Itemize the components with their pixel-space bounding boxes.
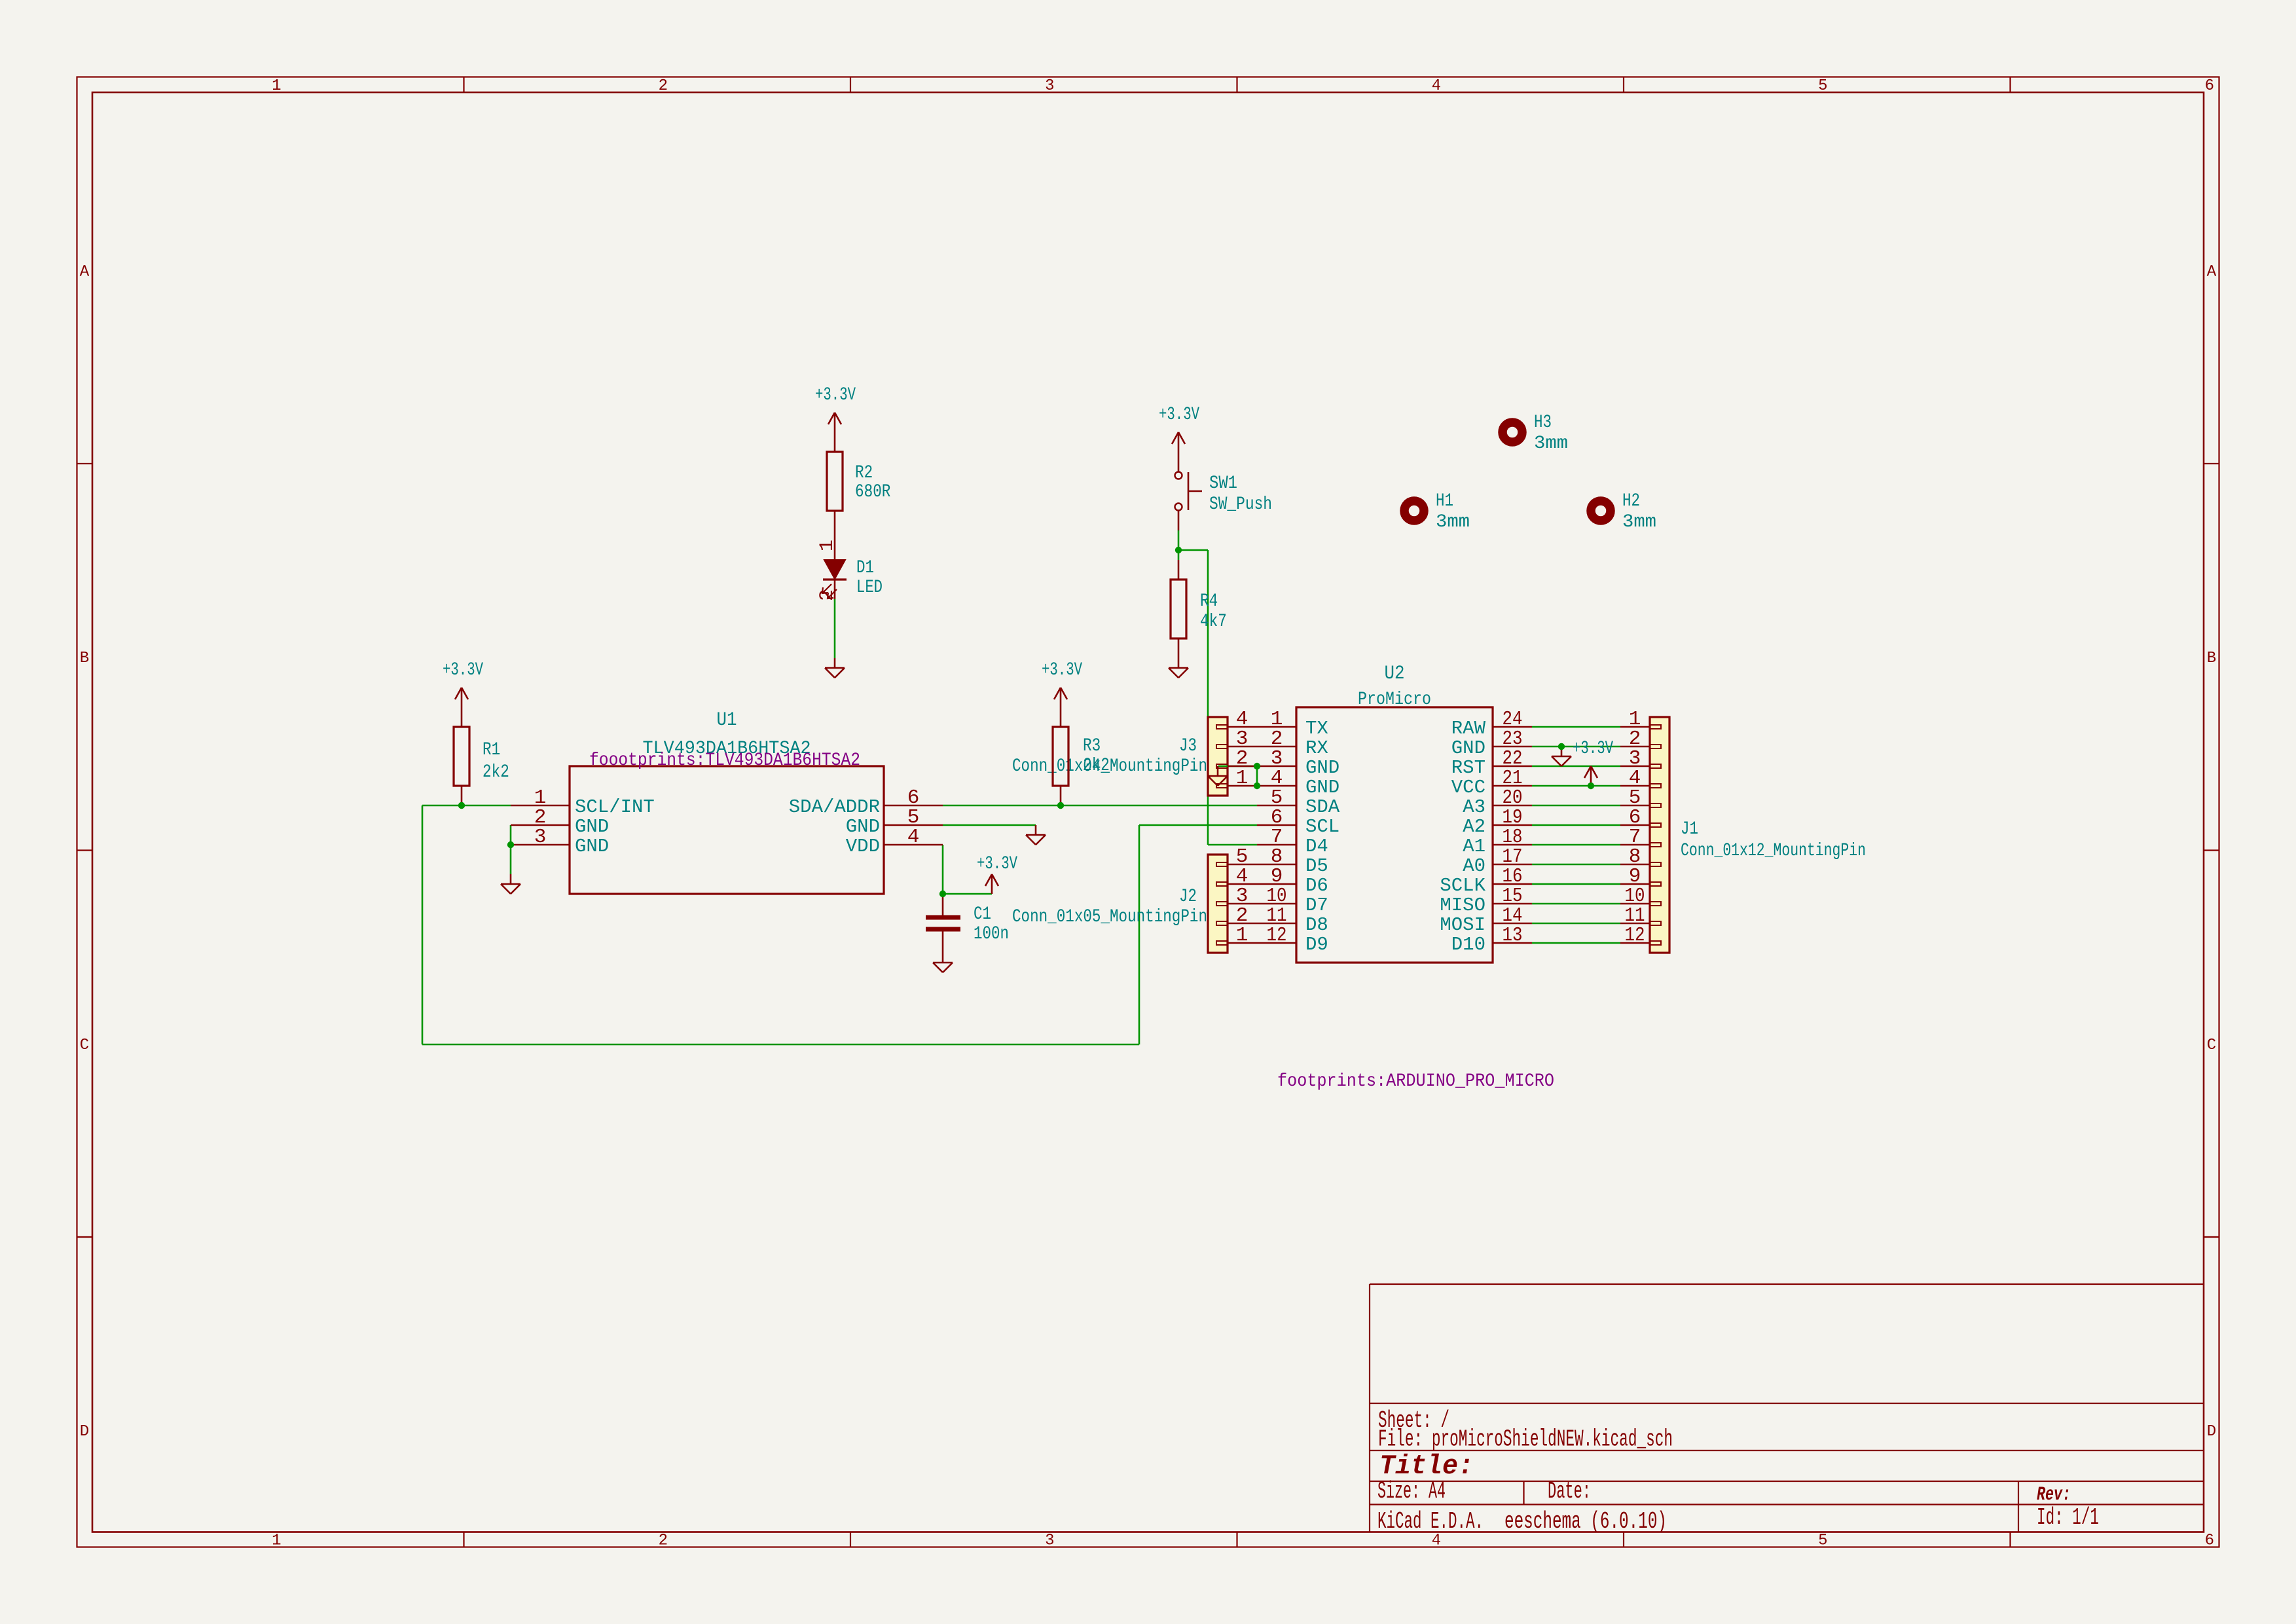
svg-text:SCL/INT: SCL/INT: [575, 796, 655, 818]
connector J2 Conn_01x05_MountingPin: [1012, 855, 1257, 953]
svg-text:5: 5: [1818, 77, 1827, 95]
svg-text:C: C: [80, 1037, 89, 1054]
svg-text:Date:: Date:: [1548, 1478, 1591, 1505]
svg-text:H2: H2: [1622, 491, 1640, 511]
svg-text:D9: D9: [1305, 934, 1328, 955]
svg-text:A: A: [80, 263, 90, 281]
power +3.3V at U2 VCC: [1573, 739, 1613, 786]
svg-text:GND: GND: [575, 836, 609, 857]
svg-text:Id: 1/1: Id: 1/1: [2037, 1504, 2099, 1531]
wire J3 ground stub visible over body: [1218, 766, 1228, 767]
svg-text:SW1: SW1: [1209, 473, 1237, 494]
svg-text:Rev:: Rev:: [2037, 1484, 2071, 1506]
svg-text:SDA/ADDR: SDA/ADDR: [789, 796, 880, 818]
svg-text:C: C: [2207, 1037, 2216, 1054]
svg-text:A2: A2: [1463, 816, 1485, 838]
svg-text:Conn_01x04_MountingPin: Conn_01x04_MountingPin: [1012, 756, 1207, 777]
junction R3/SDA: [1057, 802, 1064, 809]
svg-text:GND: GND: [1305, 777, 1339, 798]
switch SW1 SW_Push: [1175, 452, 1273, 530]
svg-text:VDD: VDD: [846, 836, 880, 857]
svg-text:R2: R2: [855, 463, 873, 483]
svg-text:Conn_01x05_MountingPin: Conn_01x05_MountingPin: [1012, 907, 1207, 927]
junction J3 pin2: [1254, 763, 1260, 769]
wire SW1 junction right: [1178, 549, 1208, 551]
svg-text:680R: 680R: [855, 482, 891, 502]
wire U2 right row 2 to J1: [1532, 746, 1620, 748]
svg-text:LED: LED: [856, 578, 883, 598]
svg-text:2k2: 2k2: [1083, 756, 1110, 776]
svg-text:RX: RX: [1305, 737, 1328, 759]
title block: [1370, 1284, 2204, 1535]
wire U2 right row 1 to J1: [1532, 726, 1620, 728]
svg-text:3: 3: [1045, 1532, 1054, 1550]
mounting hole H3 3mm: [1503, 413, 1568, 454]
svg-text:MOSI: MOSI: [1440, 914, 1485, 936]
wire J3 pin2 to pin1 link: [1256, 766, 1258, 786]
svg-text:SCLK: SCLK: [1440, 875, 1485, 896]
capacitor C1 100n: [926, 894, 1009, 953]
wire J3 ground stub: [1218, 766, 1257, 767]
ground at J3: [1208, 766, 1228, 786]
svg-text:1: 1: [272, 1532, 281, 1550]
svg-text:3: 3: [534, 826, 547, 849]
ground below R4: [1169, 658, 1188, 678]
svg-text:D6: D6: [1305, 875, 1328, 896]
svg-text:MISO: MISO: [1440, 895, 1485, 916]
svg-text:6: 6: [2205, 1532, 2214, 1550]
svg-text:13: 13: [1503, 924, 1523, 947]
wire SCL to U2.SCL: [1139, 824, 1257, 826]
LED D1: [816, 530, 883, 601]
wire SCL net vertical right: [1139, 825, 1140, 1044]
svg-text:ProMicro: ProMicro: [1358, 690, 1431, 710]
resistor R2 680R: [827, 432, 891, 530]
svg-text:Title:: Title:: [1379, 1450, 1474, 1482]
power +3.3V at R3: [1042, 660, 1082, 707]
svg-text:J3: J3: [1179, 736, 1197, 756]
svg-text:GND: GND: [1305, 757, 1339, 779]
IC U1 TLV493DA1B6HTSA2: [511, 709, 943, 894]
svg-text:3mm: 3mm: [1622, 512, 1656, 532]
svg-text:1: 1: [1236, 924, 1248, 947]
wire U2 right row 9 to J1: [1532, 883, 1620, 885]
svg-text:RAW: RAW: [1451, 718, 1486, 739]
junction R1/SCL: [458, 802, 465, 809]
wire SCL net vertical left: [422, 805, 424, 1044]
svg-text:2: 2: [659, 1532, 668, 1550]
power +3.3V at C1: [977, 854, 1017, 894]
mounting hole H1 3mm: [1404, 491, 1470, 532]
wire VDD junction to +3.3V: [943, 893, 992, 895]
wire U2 right row 8 to J1: [1532, 864, 1620, 866]
svg-text:12: 12: [1267, 924, 1287, 947]
svg-text:+3.3V: +3.3V: [977, 854, 1017, 874]
IC U2 ProMicro: [1257, 663, 1532, 963]
svg-text:3mm: 3mm: [1534, 434, 1568, 454]
svg-text:A1: A1: [1463, 836, 1485, 857]
junction SW1/R4: [1175, 547, 1182, 553]
svg-text:File: proMicroShieldNEW.kicad_: File: proMicroShieldNEW.kicad_sch: [1378, 1426, 1673, 1453]
svg-text:D7: D7: [1305, 895, 1328, 916]
svg-text:GND: GND: [575, 816, 609, 838]
svg-text:J1: J1: [1681, 819, 1698, 840]
svg-text:4: 4: [907, 826, 920, 849]
wire U2 right row 6 to J1: [1532, 824, 1620, 826]
svg-text:1: 1: [816, 540, 839, 551]
ground below D1: [825, 658, 845, 678]
connector J3 Conn_01x04_MountingPin: [1012, 717, 1257, 796]
wire D4 net vertical: [1207, 550, 1209, 845]
wire U1 GND pins to ground: [510, 825, 512, 874]
junction U2 VCC right: [1588, 783, 1594, 789]
svg-text:A3: A3: [1463, 796, 1485, 818]
power +3.3V at R2: [815, 385, 856, 432]
svg-text:U2: U2: [1385, 663, 1405, 685]
wire SW1 to R4: [1178, 530, 1180, 560]
svg-text:R4: R4: [1200, 591, 1218, 612]
svg-text:R1: R1: [483, 740, 500, 760]
svg-text:Conn_01x12_MountingPin: Conn_01x12_MountingPin: [1681, 841, 1866, 861]
ground below C1: [933, 953, 953, 972]
wire U2 right row 11 to J1: [1532, 923, 1620, 925]
svg-text:100n: 100n: [974, 924, 1009, 944]
svg-text:1: 1: [1236, 767, 1248, 790]
ground at U2 GND right: [1552, 747, 1571, 766]
resistor R4 4k7: [1171, 560, 1227, 658]
wire U2 right row 3 to J1: [1532, 766, 1620, 767]
svg-text:B: B: [80, 650, 89, 667]
svg-text:H1: H1: [1436, 491, 1453, 511]
svg-text:foootprints:TLV493DA1B6HTSA2: foootprints:TLV493DA1B6HTSA2: [589, 750, 860, 771]
junction VDD/C1: [939, 891, 946, 897]
svg-text:GND: GND: [846, 816, 880, 838]
svg-text:U1: U1: [717, 709, 737, 731]
junction U2 GND right: [1558, 743, 1565, 750]
svg-text:D5: D5: [1305, 855, 1328, 877]
connector J1 Conn_01x12_MountingPin: [1620, 717, 1866, 953]
wire U2 right row 7 to J1: [1532, 844, 1620, 846]
svg-text:VCC: VCC: [1451, 777, 1485, 798]
svg-text:12: 12: [1625, 924, 1645, 947]
svg-text:KiCad E.D.A.: KiCad E.D.A.: [1377, 1508, 1484, 1535]
svg-text:+3.3V: +3.3V: [1159, 405, 1199, 425]
svg-text:D1: D1: [856, 558, 874, 578]
wire SDA net U1.6 to U2.SDA: [943, 805, 1257, 807]
svg-text:5: 5: [1818, 1532, 1827, 1550]
svg-text:+3.3V: +3.3V: [815, 385, 856, 405]
svg-text:TX: TX: [1305, 718, 1328, 739]
svg-text:D: D: [2207, 1423, 2216, 1441]
svg-text:D: D: [80, 1423, 89, 1441]
svg-text:4: 4: [1432, 77, 1441, 95]
svg-text:R3: R3: [1083, 736, 1101, 756]
svg-text:2: 2: [659, 77, 668, 95]
svg-text:D4: D4: [1305, 836, 1328, 857]
resistor R3 2k2: [1053, 707, 1110, 805]
svg-text:+3.3V: +3.3V: [443, 660, 483, 680]
svg-text:Size: A4: Size: A4: [1377, 1478, 1446, 1505]
wire SCL net U1.1 to R1 junction: [422, 805, 511, 807]
svg-text:+3.3V: +3.3V: [1573, 739, 1613, 759]
junction U1 GND: [507, 841, 514, 848]
svg-text:H3: H3: [1534, 413, 1552, 433]
wire D4 net to U2.D4: [1208, 844, 1257, 846]
power +3.3V at R1: [443, 660, 483, 707]
svg-text:D10: D10: [1451, 934, 1485, 955]
svg-text:GND: GND: [1451, 737, 1485, 759]
svg-text:A0: A0: [1463, 855, 1485, 877]
svg-text:A: A: [2207, 263, 2217, 281]
ground below U1 GND: [501, 874, 520, 894]
svg-text:+3.3V: +3.3V: [1042, 660, 1082, 680]
wire U2 right row 12 to J1: [1532, 942, 1620, 944]
svg-text:4k7: 4k7: [1200, 612, 1227, 632]
junction J3 pin1: [1254, 783, 1260, 789]
svg-text:J2: J2: [1179, 887, 1197, 907]
wire U2 right row 5 to J1: [1532, 805, 1620, 807]
svg-text:footprints:ARDUINO_PRO_MICRO: footprints:ARDUINO_PRO_MICRO: [1277, 1071, 1554, 1092]
ground at U1 GND5: [1026, 825, 1046, 845]
wire U1.VDD down: [942, 845, 944, 894]
svg-text:6: 6: [2205, 77, 2214, 95]
svg-text:SDA: SDA: [1305, 796, 1340, 818]
wire U1.GND5 to ground: [943, 824, 1036, 826]
svg-text:B: B: [2207, 650, 2216, 667]
svg-text:RST: RST: [1451, 757, 1485, 779]
wire U2 right row 10 to J1: [1532, 903, 1620, 905]
svg-text:2k2: 2k2: [483, 762, 509, 783]
svg-text:SCL: SCL: [1305, 816, 1339, 838]
resistor R1 2k2: [454, 707, 509, 805]
svg-text:1: 1: [272, 77, 281, 95]
power +3.3V at SW1: [1159, 405, 1199, 452]
svg-text:eeschema (6.0.10): eeschema (6.0.10): [1504, 1508, 1667, 1535]
svg-text:SW_Push: SW_Push: [1209, 494, 1272, 515]
svg-text:D8: D8: [1305, 914, 1328, 936]
svg-text:C1: C1: [974, 904, 991, 925]
svg-text:2: 2: [816, 589, 839, 601]
svg-text:3mm: 3mm: [1436, 512, 1470, 532]
wire D1 cathode to ground: [834, 599, 836, 658]
mounting hole H2 3mm: [1591, 491, 1656, 532]
wire SCL net bottom run: [422, 1044, 1139, 1046]
wire U2 right row 4 to J1: [1532, 785, 1620, 787]
svg-text:3: 3: [1045, 77, 1054, 95]
